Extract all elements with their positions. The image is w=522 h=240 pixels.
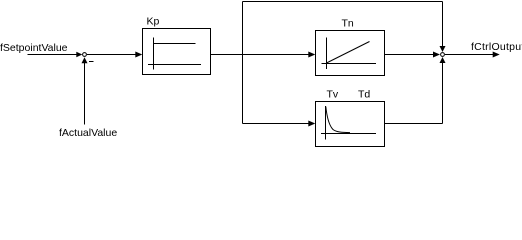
Tn graph ramp	[327, 42, 370, 64]
wire S1 to Kp	[87, 54, 139, 56]
minus sign at S1	[89, 61, 94, 63]
block Tv box	[316, 102, 385, 147]
Kp graph base line	[148, 64, 201, 66]
arrowhead up into S1	[82, 57, 88, 63]
wire Tv to S2 horizontal	[385, 123, 443, 125]
wire actual value vertical	[84, 61, 86, 125]
svg-text:Tn: Tn	[342, 18, 354, 30]
Tn graph vertical axis	[326, 38, 328, 70]
wire Tv to S2 vertical	[442, 63, 444, 124]
svg-text:Kp: Kp	[147, 16, 160, 28]
wire down to S2	[442, 2, 444, 48]
summing junction S1	[83, 53, 87, 57]
wire bottom branch	[243, 123, 312, 125]
svg-text:fActualValue: fActualValue	[59, 127, 117, 139]
wire branch vertical	[242, 2, 244, 124]
arrowhead into Tv	[308, 121, 315, 127]
arrowhead into S2	[433, 52, 440, 58]
Kp graph vertical axis	[153, 38, 155, 70]
wire Kp to Tn	[211, 54, 312, 56]
svg-text:fSetpointValue: fSetpointValue	[0, 42, 68, 54]
wire output	[445, 54, 495, 56]
svg-text:Td: Td	[358, 89, 370, 101]
arrowhead down into S2	[440, 46, 446, 52]
arrowhead up into S2	[440, 57, 446, 63]
wire Tn to S2	[385, 54, 437, 56]
arrowhead into Tn	[308, 52, 315, 58]
wire setpoint input	[28, 54, 79, 56]
block Tn box	[316, 31, 385, 76]
arrowhead into Kp	[135, 52, 142, 58]
arrowhead into summing junction S1	[76, 52, 82, 58]
Tv graph horizontal axis	[321, 133, 376, 135]
Kp graph step line	[154, 43, 196, 45]
svg-text:fCtrlOutput: fCtrlOutput	[471, 41, 522, 53]
Tv graph vertical axis	[325, 106, 327, 140]
Tv graph decay curve	[326, 107, 350, 133]
Tn graph horizontal axis	[322, 63, 377, 65]
svg-text:Tv: Tv	[327, 89, 339, 101]
summing junction S2	[441, 53, 445, 57]
wire top bypass	[243, 1, 443, 3]
block Kp box	[143, 29, 211, 75]
arrowhead output	[493, 52, 500, 58]
